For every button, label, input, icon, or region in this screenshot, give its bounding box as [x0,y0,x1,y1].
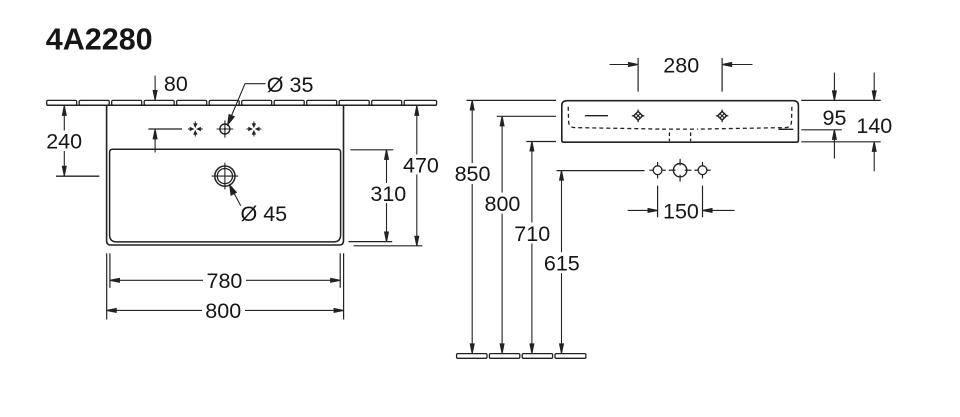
svg-text:150: 150 [663,199,699,223]
dim 310 [385,150,389,242]
dim 800f [500,116,504,353]
dim 615 extension line [557,170,645,172]
svg-text:470: 470 [403,153,439,177]
dim 850 extension line [467,99,557,101]
svg-text:800: 800 [485,192,521,216]
dim 800 extension lines [106,253,108,319]
front view hidden bowl line left [568,107,662,129]
svg-text:140: 140 [856,114,892,138]
dim 800 [107,309,344,313]
dim 280 extension lines [637,58,639,92]
basin outline (top view) [107,105,344,245]
dim 95/140 extension lines [801,99,880,101]
dim 615 [560,171,564,354]
svg-text:95: 95 [823,106,847,130]
dim 280 [610,63,753,67]
dim 240 extension line [56,175,99,177]
svg-text:800: 800 [205,299,241,323]
wall fixing hole right [694,162,710,178]
dim 800f extension line [497,115,556,117]
tap hole centreline tick [148,128,182,130]
dim 780 extension lines [109,253,111,287]
wall fixing hole left [649,162,665,178]
dim 470 extension line [354,245,423,247]
svg-text:4A2280: 4A2280 [46,22,153,56]
label Ø35 leader [228,84,266,125]
dim 150 extension lines [657,186,659,218]
front view fixing hole right diamond [716,110,729,123]
front view hidden drain notch [669,132,690,141]
wall face line (top view) [47,104,437,106]
svg-text:280: 280 [663,53,699,77]
dim 80 [153,76,157,153]
svg-text:710: 710 [514,222,550,246]
tap hole left cross [188,122,203,137]
front view hidden bowl bottom [662,128,698,130]
tap hole right cross [246,122,261,137]
drain hole (front view) [669,159,692,182]
dim 710 extension line [526,141,556,143]
front view hidden bowl line right [698,107,792,129]
svg-text:780: 780 [207,269,243,293]
dim 780 [110,278,340,282]
front view basin outline [562,101,799,143]
svg-text:850: 850 [455,162,491,186]
svg-text:80: 80 [164,72,188,96]
front view fixing hole left diamond [632,110,645,123]
front view centreline tick left [585,115,608,117]
dim 95 [833,73,837,159]
floor tiles (front view) [457,354,586,359]
front view overflow line right [779,128,794,130]
dim 240 [62,106,66,176]
svg-text:Ø 35: Ø 35 [267,73,314,97]
svg-text:240: 240 [46,129,82,153]
dim 710 [530,142,534,354]
dim 140 [872,73,876,172]
basin inner bowl (top view) [110,149,341,242]
wall tiles (top view) [47,100,437,105]
drain hole (top view) [212,163,239,190]
dim 470 [415,106,419,246]
svg-text:615: 615 [544,251,580,275]
dim 850 [470,100,474,353]
dim 310 extension lines [350,149,393,151]
svg-text:Ø 45: Ø 45 [241,202,288,226]
dim 150 [628,209,735,213]
label Ø45 leader [230,185,241,206]
tap hole middle circle [217,120,234,137]
svg-text:310: 310 [370,182,406,206]
